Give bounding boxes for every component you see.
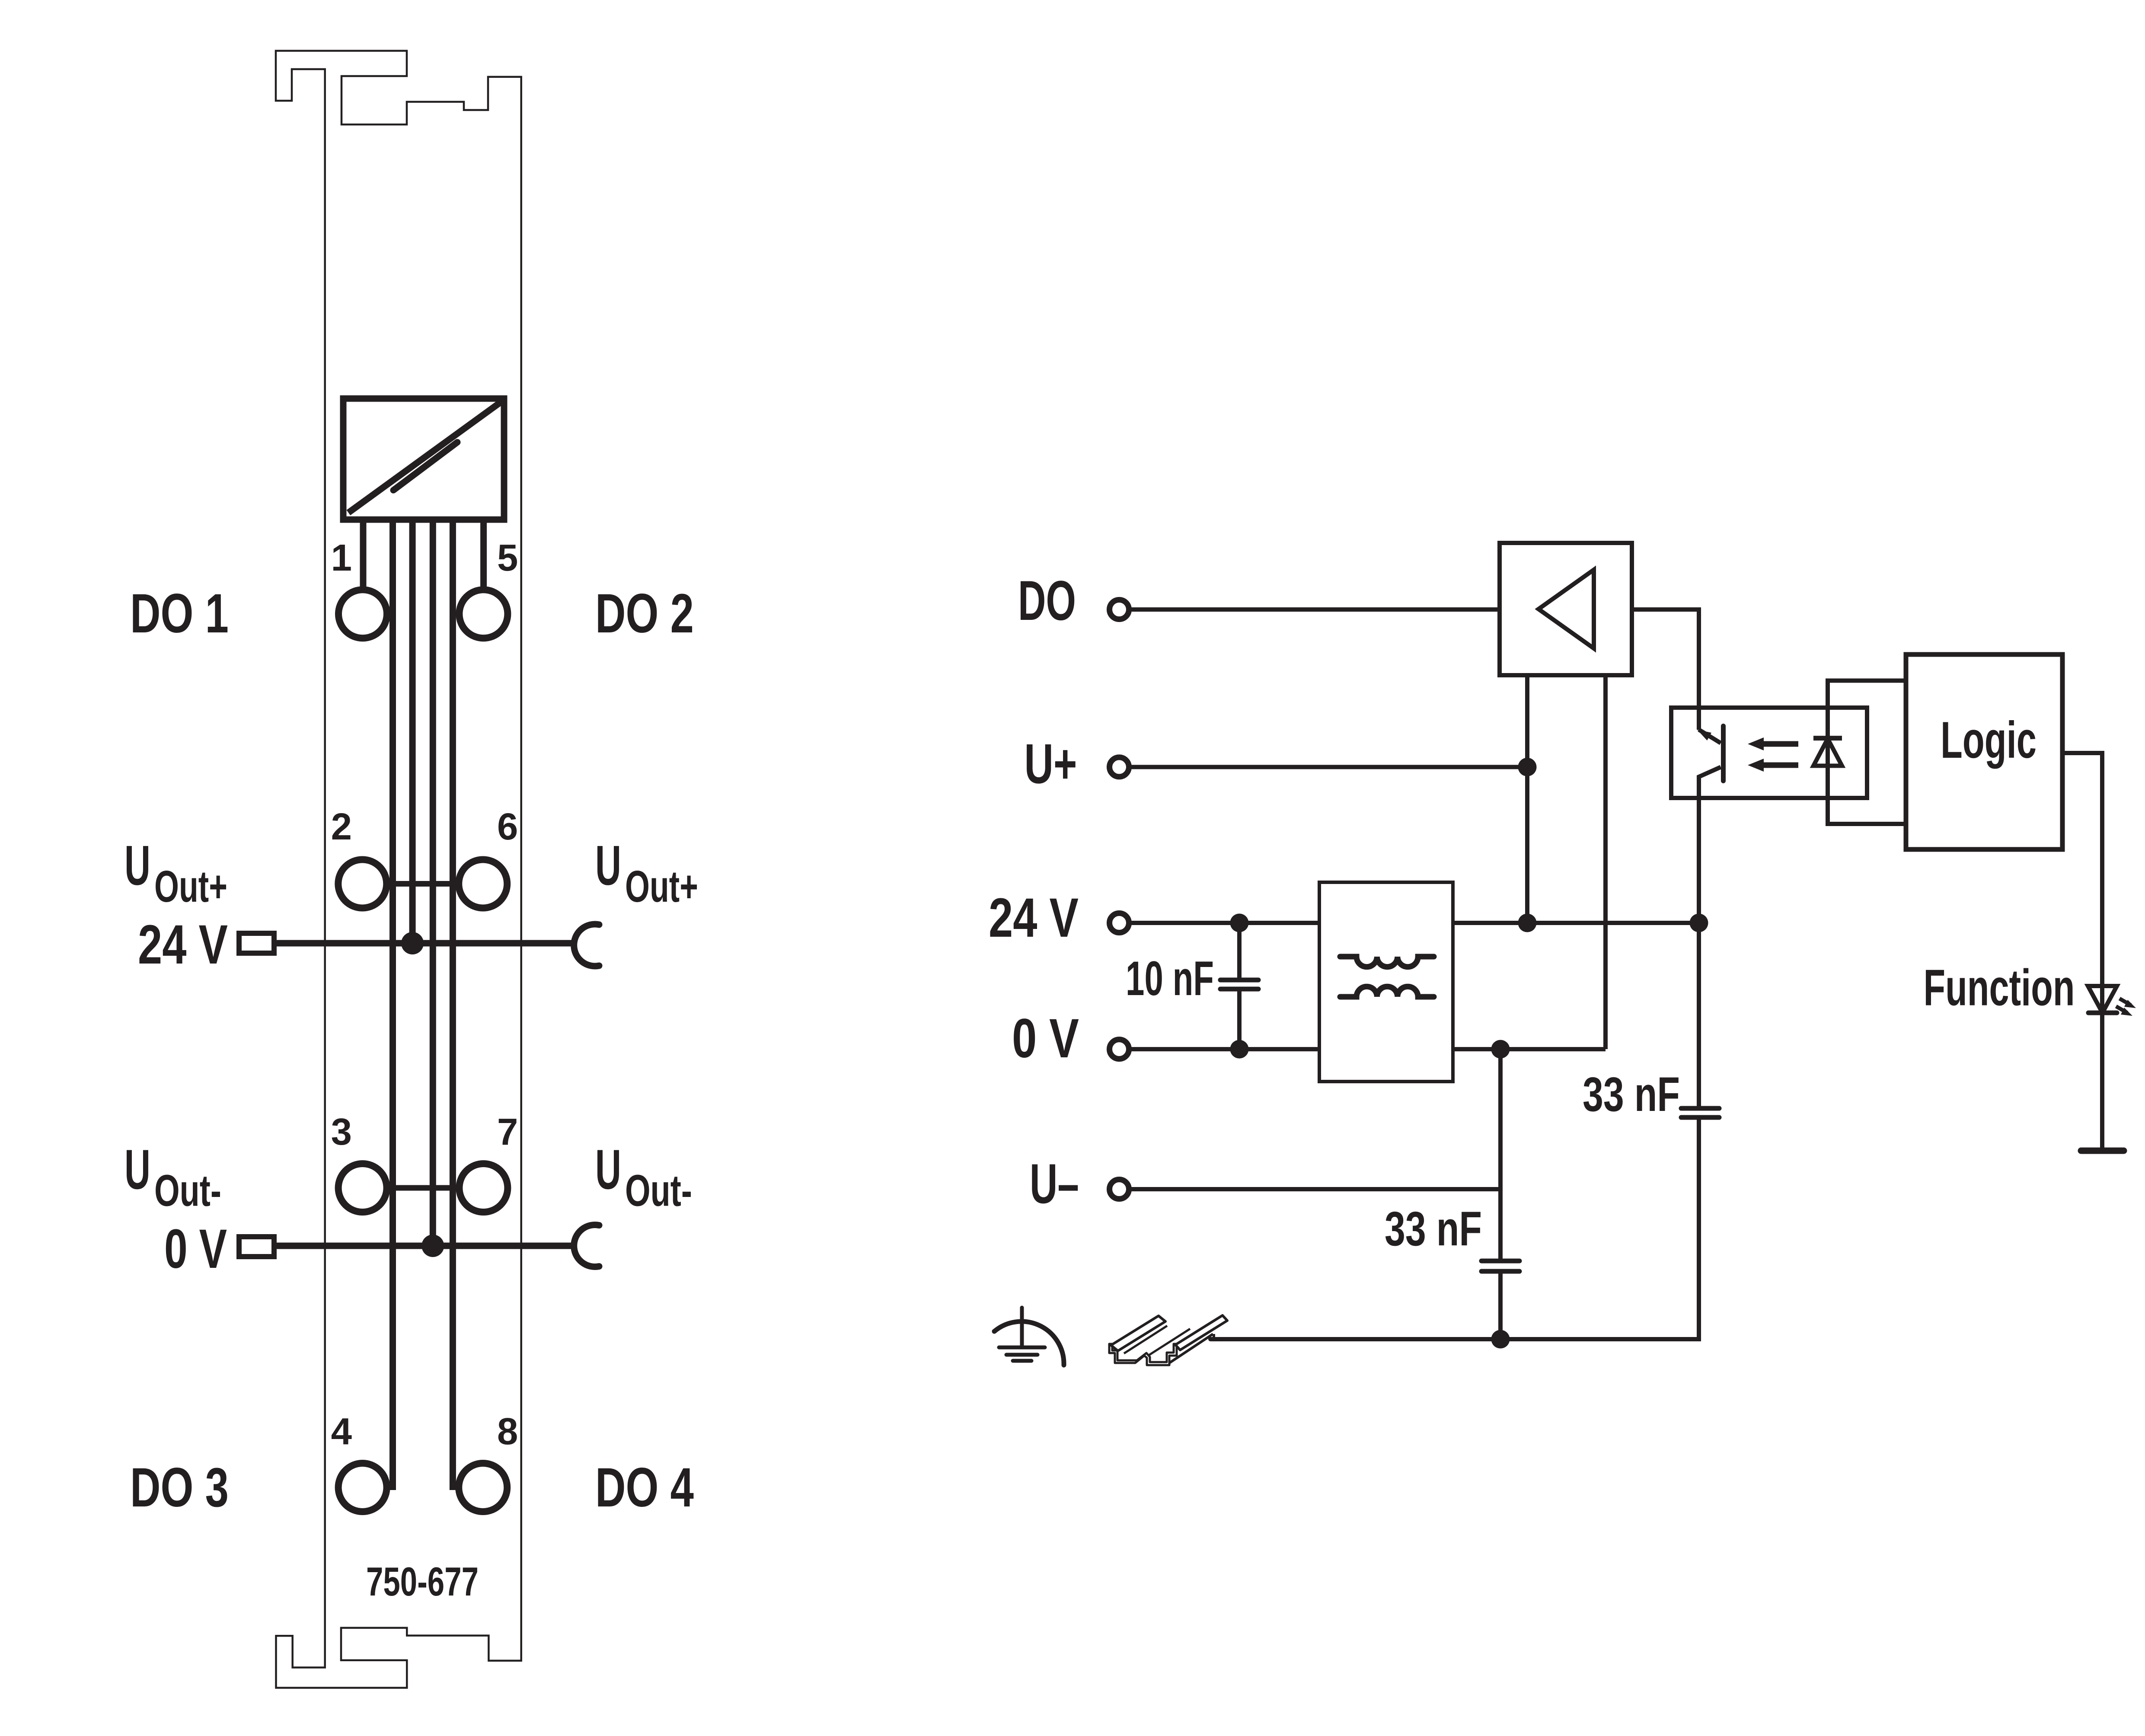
terminal 0V <box>1110 1040 1129 1059</box>
svg-text:U: U <box>595 1138 621 1201</box>
svg-text:0 V: 0 V <box>1012 1008 1079 1069</box>
power converter U10 box <box>343 399 504 520</box>
wire filtered 24V <box>1453 921 1699 925</box>
wire 0V row <box>277 1243 577 1249</box>
amplifier U1 box <box>1500 543 1632 675</box>
phototransistor arrow head <box>1697 730 1711 740</box>
filter L1 box <box>1319 882 1453 1082</box>
clamp circle 8 <box>459 1463 507 1512</box>
function LED arrow 1 head <box>2124 1000 2136 1008</box>
svg-text:6: 6 <box>497 806 518 848</box>
function LED arrow 2 shaft <box>2116 1006 2127 1013</box>
svg-text:5: 5 <box>497 537 518 579</box>
arc 24V continuation <box>574 924 599 966</box>
svg-text:DO 3: DO 3 <box>130 1457 229 1519</box>
wire DO to amplifier <box>1129 607 1500 612</box>
wire capacitor C1 top lead <box>1237 923 1242 980</box>
bus wire to clamp 4 <box>389 517 396 1490</box>
module 750-677 housing outline <box>276 51 521 1688</box>
svg-text:Out-: Out- <box>625 1166 692 1216</box>
wire logic to function LED <box>2062 753 2102 1013</box>
terminal U+ <box>1110 757 1129 777</box>
clamp circle 1 <box>338 590 387 638</box>
svg-text:DO 1: DO 1 <box>130 583 229 645</box>
function LED arrow 2 head <box>2121 1008 2132 1016</box>
svg-text:4: 4 <box>331 1410 352 1452</box>
wire clamp3 to clamp7 <box>386 1185 459 1191</box>
svg-text:U+: U+ <box>1025 732 1077 795</box>
wire 24V to filter <box>1129 921 1319 925</box>
converter short diagonal <box>393 442 457 490</box>
capacitor C3 33nF plates <box>1681 1106 1719 1111</box>
function LED triangle <box>2088 986 2117 1013</box>
wire clamp2 to clamp6 <box>386 881 459 887</box>
optocoupler U2 box <box>1671 708 1867 798</box>
junction 24V bus <box>401 932 424 954</box>
junction 24V amplifier pin <box>1518 914 1537 932</box>
svg-text:U: U <box>124 834 150 897</box>
svg-text:Function: Function <box>1924 959 2075 1016</box>
phototransistor base bar <box>1721 726 1726 781</box>
svg-text:24 V: 24 V <box>138 914 228 976</box>
functional earth symbol <box>1020 1308 1024 1347</box>
logic box <box>1906 654 2062 849</box>
wire U+ <box>1129 765 1527 769</box>
wire capacitor C2 to earth rail <box>1498 1271 1503 1339</box>
optocoupler light arrow 2 head <box>1748 759 1764 772</box>
phototransistor emitter lead <box>1699 767 1721 923</box>
0V input connector <box>239 1237 274 1257</box>
bus wire 24V rail <box>409 517 416 943</box>
svg-text:3: 3 <box>331 1111 352 1153</box>
junction 0V branch <box>1491 1040 1510 1059</box>
terminal U- <box>1110 1180 1129 1199</box>
wire amplifier pin 0V <box>1603 675 1608 1049</box>
junction U+ amplifier <box>1518 758 1537 776</box>
terminal 24V <box>1110 913 1129 933</box>
clamp circle 5 <box>459 590 508 638</box>
wire emitter net down <box>1697 923 1701 1108</box>
terminal DO <box>1110 600 1129 619</box>
junction 0V bus <box>421 1235 444 1257</box>
svg-text:DO: DO <box>1018 569 1076 632</box>
wire amplifier pin U+ <box>1525 675 1529 923</box>
clamp circle 6 <box>459 860 507 908</box>
capacitor C2 33nF plates <box>1481 1259 1519 1264</box>
wire pin1 to clamp 1 <box>360 517 367 593</box>
wire amplifier to optocoupler <box>1632 610 1699 730</box>
wire capacitor C1 bottom lead <box>1237 989 1242 1049</box>
svg-text:1: 1 <box>331 537 352 579</box>
svg-text:Out+: Out+ <box>154 862 227 911</box>
svg-text:10 nF: 10 nF <box>1126 951 1214 1005</box>
wire pin5 to clamp 5 <box>480 517 487 593</box>
svg-text:750-677: 750-677 <box>366 1559 479 1604</box>
LED D1 cathode bar <box>1813 736 1842 740</box>
clamp circle 3 <box>338 1164 387 1212</box>
function LED arrow 1 shaft <box>2119 999 2131 1005</box>
wire capacitor C3 to earth rail corner <box>1210 1117 1699 1339</box>
svg-text:U: U <box>124 1138 150 1201</box>
amplifier triangle <box>1539 570 1594 648</box>
svg-text:33 nF: 33 nF <box>1385 1202 1482 1256</box>
junction C1 24V <box>1230 914 1249 932</box>
optocoupler light arrow 1 shaft <box>1763 741 1798 747</box>
svg-text:Out-: Out- <box>154 1166 221 1216</box>
junction 24V emitter <box>1690 914 1708 932</box>
LED D1 triangle <box>1813 739 1842 766</box>
clamp circle 4 <box>338 1463 387 1512</box>
svg-text:33 nF: 33 nF <box>1583 1067 1680 1121</box>
bus wire 0V rail <box>430 517 436 1246</box>
wire filtered 0V <box>1453 1047 1606 1051</box>
inductor L1b <box>1340 986 1434 997</box>
interface box <box>1828 681 1906 824</box>
svg-text:7: 7 <box>497 1111 518 1153</box>
capacitor C1 10nF plates <box>1220 978 1258 983</box>
svg-text:2: 2 <box>331 806 352 848</box>
wire U- <box>1129 1187 1500 1191</box>
phototransistor collector lead <box>1699 730 1721 743</box>
svg-text:U–: U– <box>1030 1152 1079 1215</box>
function LED cathode bar <box>2088 1011 2117 1015</box>
svg-text:U: U <box>595 834 621 897</box>
DIN rail symbol <box>1124 1326 1167 1353</box>
junction C1 0V <box>1230 1040 1249 1059</box>
junction earth rail <box>1491 1330 1510 1349</box>
svg-text:8: 8 <box>497 1410 518 1452</box>
bus wire to clamp 8 <box>450 517 456 1490</box>
inductor L1a <box>1340 957 1434 967</box>
clamp circle 7 <box>459 1164 508 1212</box>
optocoupler light arrow 2 shaft <box>1763 763 1798 768</box>
svg-text:0 V: 0 V <box>164 1218 227 1280</box>
wire function LED to ground <box>2100 1013 2104 1151</box>
svg-text:Logic: Logic <box>1941 711 2036 769</box>
wire 0V branch down <box>1498 1049 1503 1261</box>
wire 0V to filter <box>1129 1047 1319 1051</box>
24V input connector <box>239 933 274 953</box>
ground bar right <box>2081 1148 2124 1154</box>
svg-text:Out+: Out+ <box>625 862 698 911</box>
svg-text:DO 2: DO 2 <box>595 583 694 645</box>
svg-text:DO 4: DO 4 <box>595 1457 694 1519</box>
optocoupler light arrow 1 head <box>1748 737 1764 750</box>
wire 24V row <box>277 940 577 947</box>
arc 0V continuation <box>574 1225 599 1267</box>
converter diagonal <box>348 402 501 513</box>
svg-text:24 V: 24 V <box>989 887 1079 949</box>
clamp circle 2 <box>338 860 386 908</box>
